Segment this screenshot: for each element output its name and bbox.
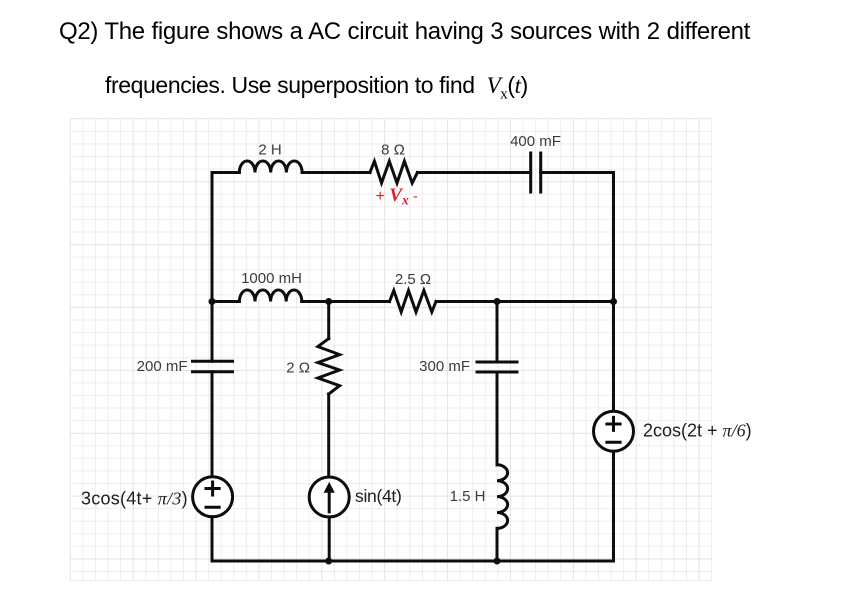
- wire top-left horizontal segment: [212, 171, 239, 174]
- svg-text:3cos(4t+ π/3): 3cos(4t+ π/3): [81, 489, 188, 509]
- resistor R2 2.5 ohm: [390, 291, 437, 313]
- node C-top junction: [494, 298, 501, 305]
- wire middle row seg 2: [302, 300, 390, 303]
- svg-text:2.5 Ω: 2.5 Ω: [395, 271, 431, 288]
- node right-middle junction: [610, 298, 617, 305]
- inductor L3 1.5 H: [497, 465, 508, 529]
- node B-bottom junction: [325, 558, 332, 565]
- wire left vertical upper: [211, 173, 214, 362]
- capacitor C2 200 mF: [193, 361, 233, 371]
- current source I1 sin(4t): [309, 477, 349, 517]
- voltage source V2 2cos(2t+pi/6): [594, 411, 634, 451]
- node left-middle junction: [209, 298, 216, 305]
- wire middle row seg 1: [212, 300, 239, 303]
- resistor R3 2 ohm: [318, 339, 340, 394]
- inductor L1 2 H: [239, 161, 302, 173]
- inductor L2 1000 mH: [239, 290, 301, 302]
- svg-text:200 mF: 200 mF: [137, 358, 188, 375]
- wire branch B vertical middle: [327, 394, 330, 477]
- wire branch C vertical lower: [496, 528, 499, 561]
- wire branch C vertical middle: [496, 372, 499, 465]
- svg-text:+ Vx -: + Vx -: [376, 185, 418, 208]
- svg-text:400 mF: 400 mF: [510, 133, 561, 150]
- svg-text:8 Ω: 8 Ω: [381, 142, 405, 159]
- resistor R1 8 ohm: [370, 161, 418, 183]
- capacitor C3 300 mF: [477, 362, 517, 372]
- svg-text:2 H: 2 H: [258, 142, 281, 159]
- svg-text:1000 mH: 1000 mH: [241, 270, 302, 287]
- wire bottom: [212, 560, 614, 563]
- node C-bottom junction: [494, 558, 501, 565]
- wire top between R1 and C1: [417, 171, 530, 174]
- wire left vertical lower: [211, 517, 214, 561]
- wire right vertical lower: [612, 451, 615, 561]
- node B-top junction: [325, 298, 332, 305]
- wire right vertical upper: [612, 173, 615, 412]
- wire branch B vertical upper: [327, 302, 330, 339]
- wire top between L1 and R1: [302, 171, 370, 174]
- svg-text:sin(4t): sin(4t): [355, 486, 402, 506]
- wire left vertical middle: [211, 372, 214, 477]
- title line 2: [105, 72, 528, 104]
- title line 1: [59, 18, 750, 46]
- wire middle row seg 3: [436, 300, 614, 303]
- voltage source V1 3cos(4t+pi/3): [193, 477, 233, 517]
- wire branch C vertical upper: [496, 302, 499, 363]
- svg-text:300 mF: 300 mF: [419, 358, 470, 375]
- svg-text:2cos(2t + π/6): 2cos(2t + π/6): [643, 421, 752, 441]
- svg-text:2 Ω: 2 Ω: [286, 360, 310, 377]
- svg-text:1.5 H: 1.5 H: [450, 488, 486, 505]
- wire top-right horizontal segment: [541, 171, 614, 174]
- capacitor C1 400 mF: [531, 153, 541, 192]
- wire branch B vertical lower: [328, 517, 331, 561]
